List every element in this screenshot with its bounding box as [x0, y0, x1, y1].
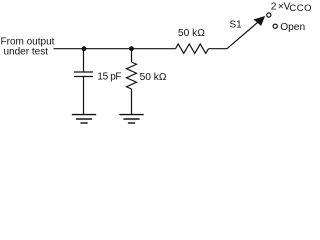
- switch throw contact: Open: [273, 24, 277, 28]
- capacitor C1 (15 pF): [74, 72, 93, 77]
- svg-text:under test: under test: [4, 47, 49, 58]
- ground (under capacitor): [72, 115, 96, 123]
- ground (under resistor R1): [119, 115, 143, 123]
- junction: resistor tap node: [129, 46, 134, 51]
- resistor R1 50 kΩ (vertical zigzag): [127, 62, 137, 89]
- switch throw contact: 2 × VCCO: [267, 13, 271, 17]
- resistor R2 50 kΩ (horizontal zigzag): [176, 44, 209, 53]
- wire: capacitor bottom plate to ground: [83, 77, 85, 115]
- wire: main horizontal net from output to R2: [54, 48, 176, 50]
- svg-text:50 kΩ: 50 kΩ: [178, 28, 205, 39]
- switch S1: SPDT arm with arrowhead: [227, 16, 265, 49]
- svg-text:15 pF: 15 pF: [97, 71, 121, 82]
- wire: junction down to resistor R1 top: [131, 49, 133, 62]
- wire: resistor R1 bottom to ground: [131, 89, 133, 115]
- svg-text:2×VCCO: 2×VCCO: [271, 2, 312, 14]
- wire: junction down to capacitor top plate: [83, 49, 85, 72]
- junction: capacitor tap node: [82, 46, 87, 51]
- svg-text:S1: S1: [230, 19, 243, 30]
- node label: From output under test: [1, 37, 55, 58]
- svg-text:50 kΩ: 50 kΩ: [140, 72, 167, 83]
- svg-text:Open: Open: [280, 22, 305, 33]
- wire: R2 to switch S1 pole: [209, 48, 228, 50]
